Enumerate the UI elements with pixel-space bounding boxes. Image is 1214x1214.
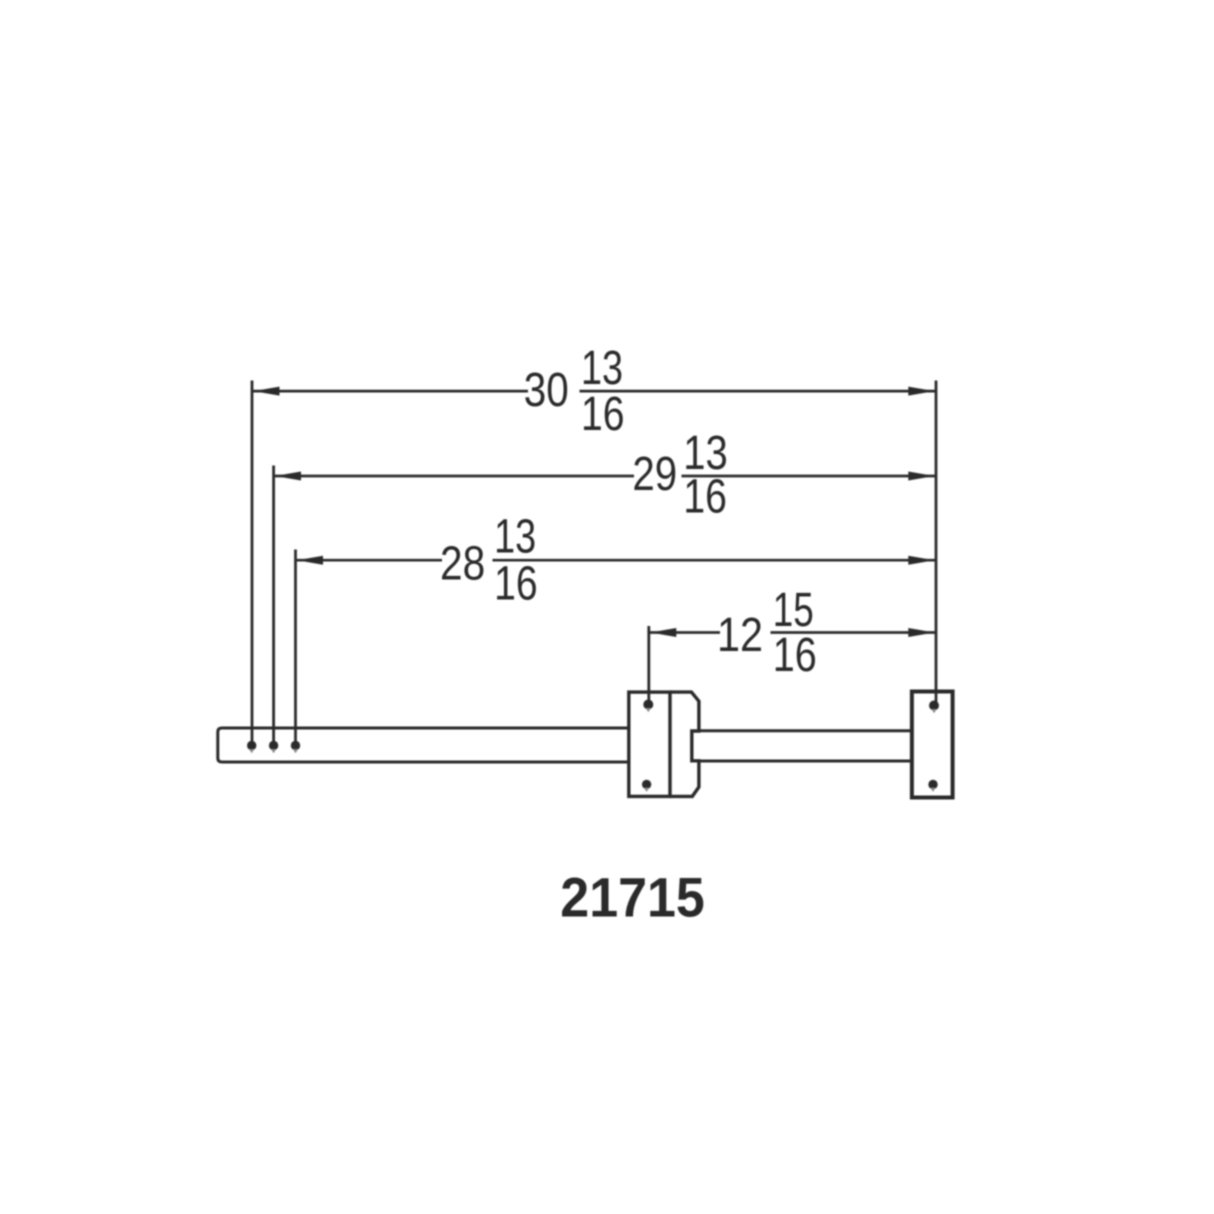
- svg-text:30: 30: [524, 364, 569, 417]
- fraction 13/16 of 30: [581, 342, 625, 441]
- leader dot left bar hole 1: [247, 741, 256, 753]
- rod right segment: [699, 731, 912, 761]
- svg-text:13: 13: [494, 511, 536, 564]
- extension line 3 (x=295.5): [294, 550, 297, 745]
- svg-text:16: 16: [581, 388, 625, 441]
- screw dot right bracket bottom hole: [928, 780, 937, 792]
- dimension line 28 13/16: [296, 556, 937, 565]
- svg-text:16: 16: [494, 558, 537, 611]
- leader dot right bracket top hole: [929, 701, 939, 714]
- screw dot middle bracket bottom hole: [642, 780, 651, 792]
- extension line 1 (left, x=252): [251, 381, 254, 745]
- extension line 4 (middle bracket, x=648.8): [647, 626, 650, 703]
- right bracket post rectangle: [912, 692, 953, 798]
- extension line 2 (x=273.5): [272, 466, 275, 745]
- dimension line 12 15/16: [649, 628, 936, 637]
- svg-text:12: 12: [717, 609, 763, 662]
- leader dot middle bracket top hole: [643, 700, 653, 713]
- middle bracket post rectangle: [629, 692, 670, 796]
- dimension line 30 13/16: [252, 387, 936, 396]
- extension line right (x=936): [935, 381, 938, 705]
- svg-text:16: 16: [773, 629, 817, 682]
- svg-text:28: 28: [440, 537, 485, 590]
- svg-text:29: 29: [632, 448, 677, 501]
- middle bracket cam body with notch: [670, 692, 699, 796]
- svg-text:21715: 21715: [560, 866, 705, 929]
- fraction 13/16 of 29: [683, 427, 728, 524]
- svg-text:16: 16: [683, 471, 727, 524]
- leader dot left bar hole 3: [291, 741, 300, 753]
- dimension line 29 13/16: [274, 472, 936, 481]
- rod left segment (roller bar): [218, 728, 629, 762]
- leader dot left bar hole 2: [269, 741, 278, 753]
- fraction 15/16 of 12: [773, 584, 817, 682]
- fraction 13/16 of 28: [494, 511, 537, 611]
